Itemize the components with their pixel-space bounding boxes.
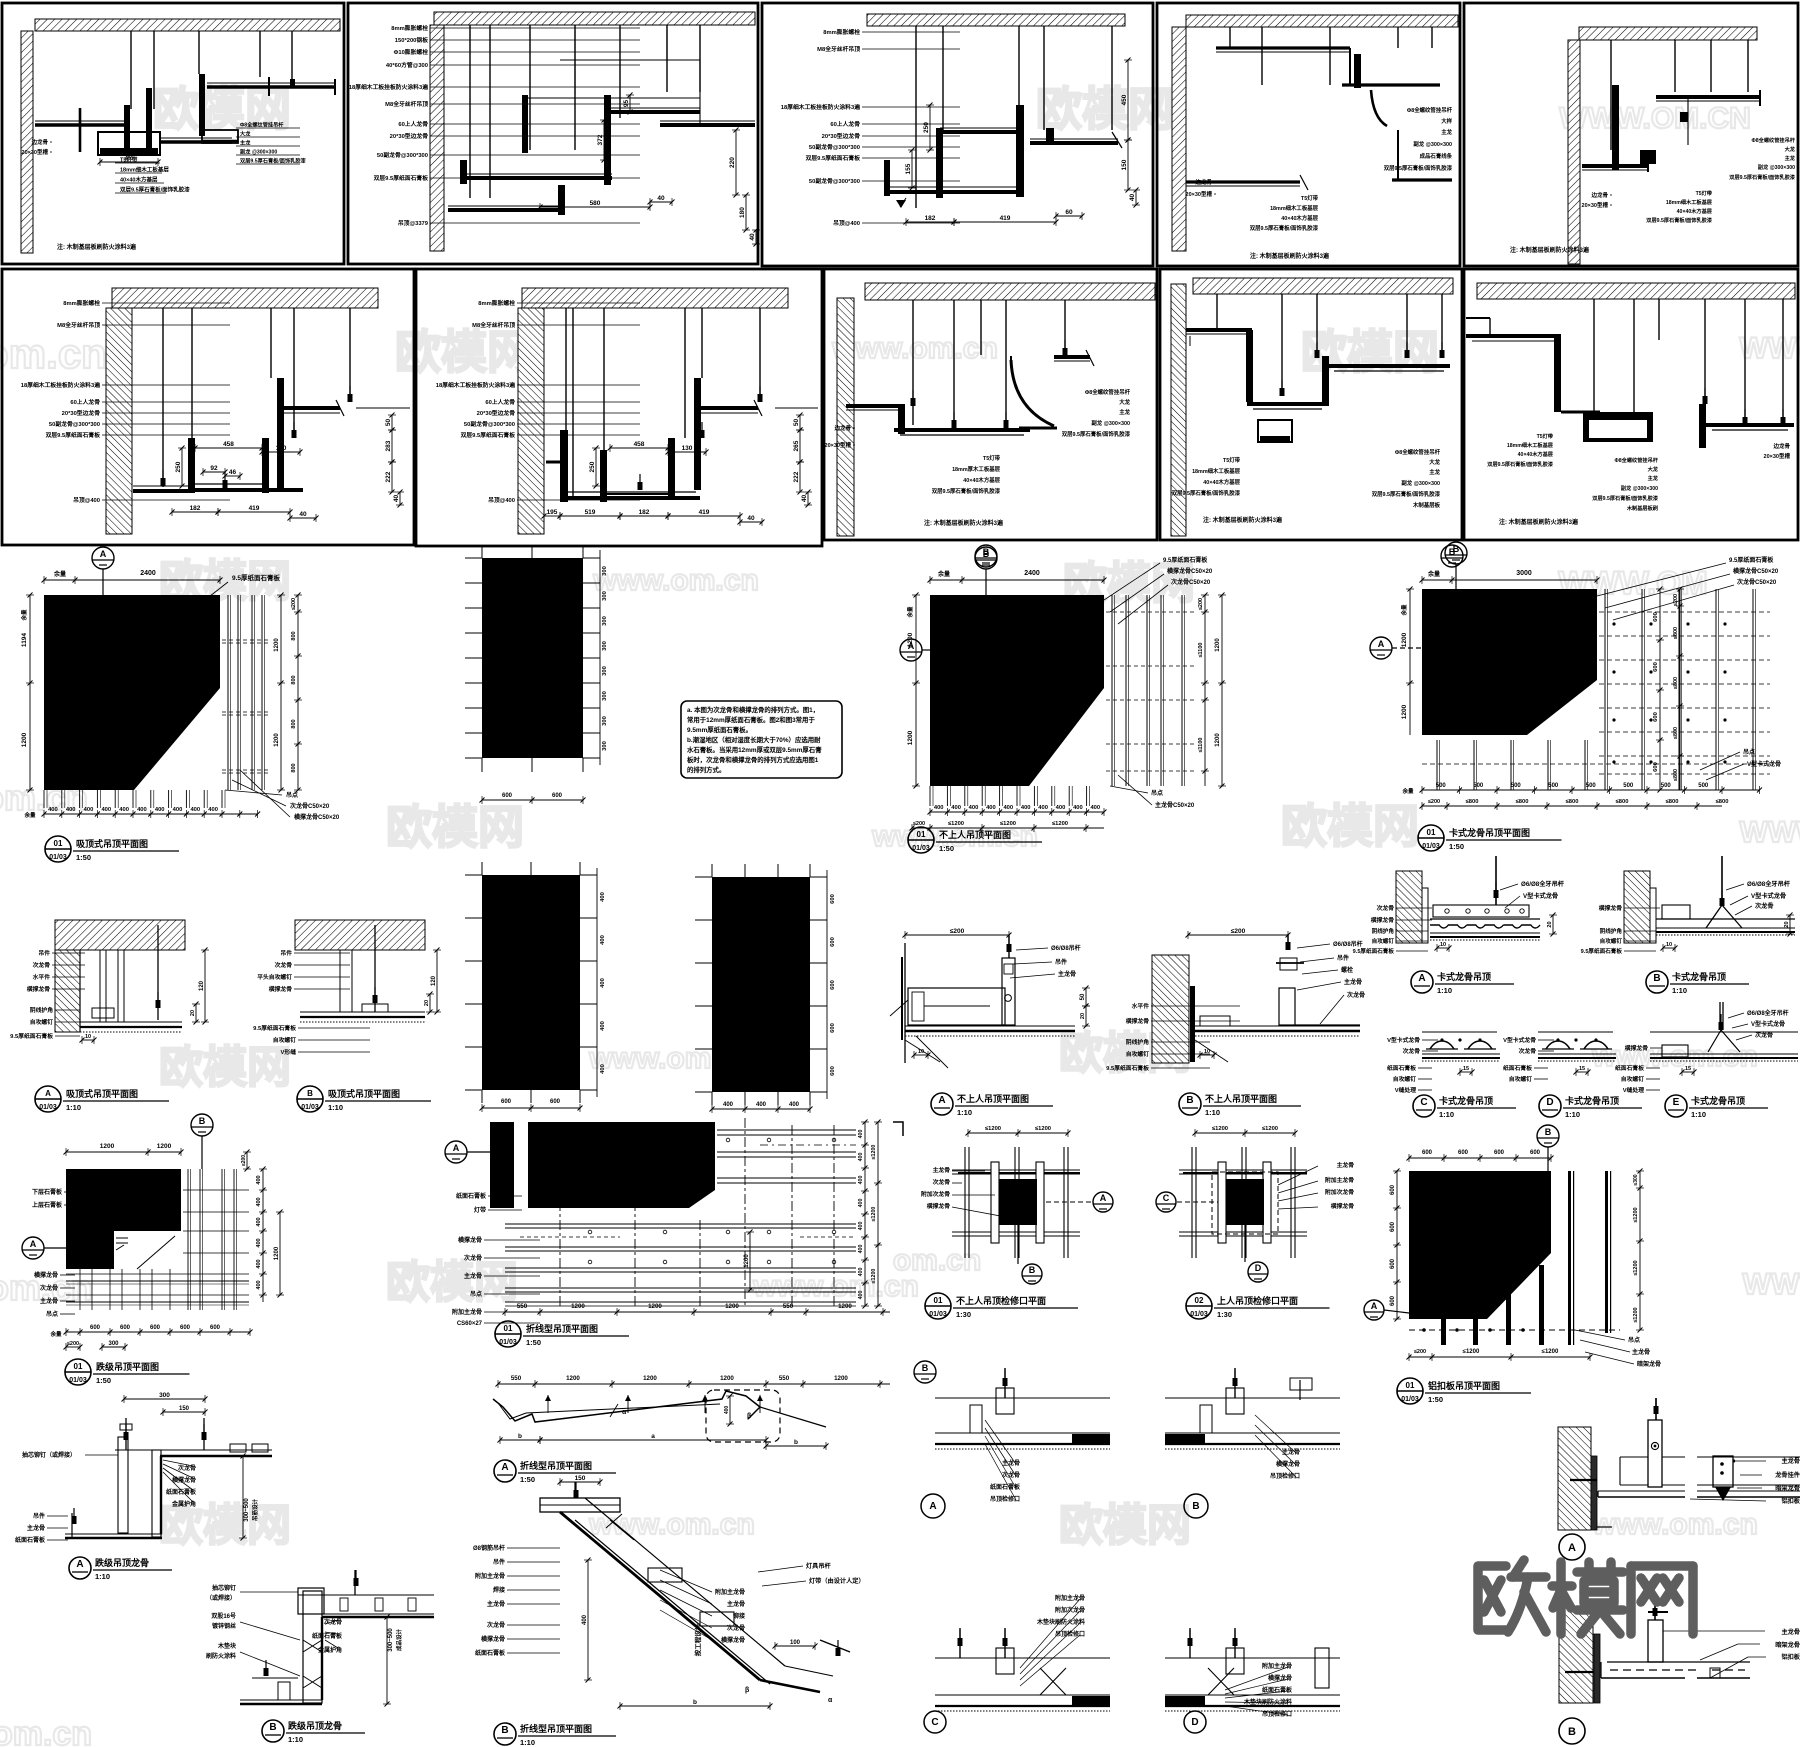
svg-text:150: 150 xyxy=(575,1475,586,1482)
stepped plan notch detail xyxy=(116,1236,175,1269)
P1 note xyxy=(57,243,137,251)
svg-text:吊件: 吊件 xyxy=(280,949,292,957)
svg-text:副龙 @300×300: 副龙 @300×300 xyxy=(240,148,277,156)
svg-text:01/03: 01/03 xyxy=(499,1339,517,1346)
svg-text:大龙: 大龙 xyxy=(240,130,251,138)
P8 labels xyxy=(825,388,1131,495)
svg-text:9.5厚纸面石膏板: 9.5厚纸面石膏板 xyxy=(1581,947,1623,955)
P2 ceiling slab hatch xyxy=(434,12,755,25)
access detail D section xyxy=(1165,1628,1340,1718)
svg-text:18厚细木工板挂板防火涂料3遍: 18厚细木工板挂板防火涂料3遍 xyxy=(781,103,860,111)
svg-text:1200: 1200 xyxy=(720,1375,734,1382)
svg-text:不上人吊顶平面图: 不上人吊顶平面图 xyxy=(957,1093,1029,1104)
svg-text:横撑龙骨: 横撑龙骨 xyxy=(1331,1202,1354,1210)
detail E title xyxy=(1665,1095,1768,1119)
svg-text:18mm细木工板基层: 18mm细木工板基层 xyxy=(1192,467,1241,475)
svg-text:500: 500 xyxy=(1511,783,1522,789)
svg-text:600: 600 xyxy=(1390,1221,1396,1232)
svg-text:60上人龙骨: 60上人龙骨 xyxy=(830,120,860,128)
svg-text:吸顶式吊顶平面图: 吸顶式吊顶平面图 xyxy=(76,838,148,849)
svg-text:暗架龙骨: 暗架龙骨 xyxy=(1637,1360,1661,1368)
svg-text:300~500: 300~500 xyxy=(244,1498,250,1522)
svg-text:纸面石膏板: 纸面石膏板 xyxy=(1503,1064,1532,1072)
detail panel P2 border xyxy=(348,3,758,264)
svg-text:300: 300 xyxy=(602,616,608,626)
aluminum panel detail A section xyxy=(1558,1398,1800,1530)
plan 03 black ceiling polygon xyxy=(930,595,1104,786)
svg-text:跌级吊顶龙骨: 跌级吊顶龙骨 xyxy=(95,1557,149,1568)
svg-text:400: 400 xyxy=(84,807,94,813)
P9 note xyxy=(1203,516,1283,524)
svg-text:纸面石膏板: 纸面石膏板 xyxy=(475,1649,506,1657)
svg-text:419: 419 xyxy=(249,505,260,512)
svg-text:b.潮湿地区（相对湿度长期大于70%）应选用耐: b.潮湿地区（相对湿度长期大于70%）应选用耐 xyxy=(687,735,821,744)
svg-text:次龙骨: 次龙骨 xyxy=(933,1178,951,1186)
svg-text:吊件: 吊件 xyxy=(1337,954,1349,962)
detail D clip-in runner section xyxy=(1503,1032,1616,1083)
svg-text:500: 500 xyxy=(1586,783,1597,789)
svg-text:18mm细木工板基层: 18mm细木工板基层 xyxy=(120,166,169,174)
svg-text:双层9.5厚石膏板/面饰乳胶漆: 双层9.5厚石膏板/面饰乳胶漆 xyxy=(1372,490,1441,498)
svg-text:2400: 2400 xyxy=(140,570,156,577)
svg-text:附加主龙骨: 附加主龙骨 xyxy=(1055,1594,1085,1602)
svg-text:B: B xyxy=(1653,973,1660,984)
svg-text:9.5厚纸面石膏板: 9.5厚纸面石膏板 xyxy=(1106,1064,1149,1072)
svg-text:1200: 1200 xyxy=(274,1246,280,1260)
svg-text:A: A xyxy=(45,1089,51,1098)
svg-text:01/03: 01/03 xyxy=(49,854,67,861)
svg-text:182: 182 xyxy=(639,509,650,516)
svg-text:01/03: 01/03 xyxy=(1190,1311,1208,1318)
svg-text:D: D xyxy=(1255,1263,1262,1273)
svg-text:a. 本图为次龙骨和横撑龙骨的排列方式。图1，: a. 本图为次龙骨和横撑龙骨的排列方式。图1， xyxy=(687,705,819,714)
svg-text:主龙骨: 主龙骨 xyxy=(1632,1348,1650,1356)
aluminum plan black polygon xyxy=(1409,1171,1551,1319)
plan drawing: clip-in runner ceiling plan 01 xyxy=(1370,542,1600,735)
svg-text:1:50: 1:50 xyxy=(526,1338,541,1347)
svg-text:≤200: ≤200 xyxy=(1428,799,1440,805)
svg-text:≤1200: ≤1200 xyxy=(1633,1307,1639,1322)
detail A leaders xyxy=(1010,944,1081,978)
plan 04 top-right leaders xyxy=(1597,556,1779,620)
svg-text:20: 20 xyxy=(1784,921,1790,927)
svg-text:附加主龙骨: 附加主龙骨 xyxy=(1262,1662,1292,1670)
svg-text:458: 458 xyxy=(634,441,645,448)
svg-text:300: 300 xyxy=(602,666,608,676)
svg-text:木垫块: 木垫块 xyxy=(217,1642,237,1650)
svg-text:01: 01 xyxy=(504,1324,513,1333)
detail E clip-in runner section xyxy=(1615,1002,1798,1094)
svg-text:横撑龙骨C50×20: 横撑龙骨C50×20 xyxy=(1733,567,1779,575)
svg-text:β: β xyxy=(745,1687,750,1694)
svg-text:20*30型边龙骨: 20*30型边龙骨 xyxy=(62,409,101,417)
P10 section ref B xyxy=(1441,545,1463,567)
svg-text:01/03: 01/03 xyxy=(69,1377,87,1384)
svg-text:om.cn: om.cn xyxy=(0,330,107,377)
svg-text:V型卡式龙骨: V型卡式龙骨 xyxy=(1387,1036,1420,1044)
svg-text:400: 400 xyxy=(723,1102,734,1108)
svg-text:铝扣板: 铝扣板 xyxy=(1781,1653,1800,1661)
svg-text:主龙骨: 主龙骨 xyxy=(1781,1628,1800,1636)
svg-text:CS60×27: CS60×27 xyxy=(457,1321,483,1327)
svg-text:400: 400 xyxy=(600,978,606,988)
svg-text:550: 550 xyxy=(783,1303,794,1310)
svg-text:222: 222 xyxy=(793,471,800,482)
svg-text:500: 500 xyxy=(1436,783,1447,789)
svg-text:大龙: 大龙 xyxy=(1119,398,1130,406)
svg-text:1200: 1200 xyxy=(907,632,914,647)
figure 2 ticks xyxy=(465,862,606,1112)
svg-text:B: B xyxy=(1186,1095,1193,1106)
svg-text:主龙骨: 主龙骨 xyxy=(933,1166,951,1174)
svg-text:9.5厚纸面石膏板: 9.5厚纸面石膏板 xyxy=(1163,556,1208,564)
svg-text:V形缝: V形缝 xyxy=(281,1048,297,1056)
svg-text:Ø8钢筋吊杆: Ø8钢筋吊杆 xyxy=(473,1544,505,1552)
svg-text:≤1200: ≤1200 xyxy=(1463,1349,1480,1355)
svg-text:95: 95 xyxy=(623,100,630,108)
svg-text:余量: 余量 xyxy=(49,1330,62,1338)
svg-text:余量: 余量 xyxy=(53,570,66,578)
svg-text:≤800: ≤800 xyxy=(1666,799,1679,805)
note text box xyxy=(681,701,842,778)
svg-text:10: 10 xyxy=(1440,942,1446,948)
svg-text:283: 283 xyxy=(385,440,392,451)
svg-text:300: 300 xyxy=(602,691,608,701)
svg-text:刷防火涂料: 刷防火涂料 xyxy=(206,1652,236,1660)
svg-text:400: 400 xyxy=(256,1197,262,1206)
svg-text:欧模网: 欧模网 xyxy=(1281,800,1419,852)
svg-text:B: B xyxy=(1545,1127,1552,1137)
svg-text:次龙骨: 次龙骨 xyxy=(464,1254,482,1262)
svg-text:b: b xyxy=(794,1439,798,1446)
svg-text:15: 15 xyxy=(1463,1066,1469,1072)
svg-text:按工程设计: 按工程设计 xyxy=(693,1623,702,1656)
svg-text:灯具吊杆: 灯具吊杆 xyxy=(806,1562,832,1570)
svg-text:01/03: 01/03 xyxy=(39,1104,57,1111)
svg-text:常用于12mm厚纸面石膏板。图2和图3常用于: 常用于12mm厚纸面石膏板。图2和图3常用于 xyxy=(687,715,815,724)
P1 ceiling slab hatch xyxy=(35,19,340,31)
svg-text:400: 400 xyxy=(969,805,979,811)
svg-text:8mm膨胀螺栓: 8mm膨胀螺栓 xyxy=(823,28,860,36)
svg-text:400: 400 xyxy=(986,805,996,811)
svg-text:≤200: ≤200 xyxy=(241,1155,247,1166)
svg-text:01/03: 01/03 xyxy=(1401,1396,1419,1403)
svg-text:暗架龙骨: 暗架龙骨 xyxy=(1775,1641,1800,1649)
svg-text:9.5厚纸面石膏板: 9.5厚纸面石膏板 xyxy=(232,573,281,582)
svg-text:卡式龙骨吊顶: 卡式龙骨吊顶 xyxy=(1672,971,1726,982)
detail A labels xyxy=(10,949,85,1040)
svg-text:自攻螺钉: 自攻螺钉 xyxy=(1509,1075,1532,1083)
svg-text:A: A xyxy=(1100,1193,1107,1203)
svg-text:V缝处理: V缝处理 xyxy=(1623,1086,1644,1094)
svg-text:双层9.5厚石膏板/面饰乳胶漆: 双层9.5厚石膏板/面饰乳胶漆 xyxy=(1250,224,1319,232)
svg-text:Ø6/Ø8全牙吊杆: Ø6/Ø8全牙吊杆 xyxy=(1747,1009,1789,1017)
svg-text:V型卡式龙骨: V型卡式龙骨 xyxy=(1751,1020,1785,1028)
detail A runner leaders xyxy=(15,1451,259,1544)
svg-text:20: 20 xyxy=(1547,921,1553,927)
P9 ceiling slab hatch xyxy=(1193,278,1453,294)
svg-text:双层9.5厚石膏板/面饰乳胶漆: 双层9.5厚石膏板/面饰乳胶漆 xyxy=(1729,173,1796,181)
detail A stepped ceiling runner xyxy=(65,1392,272,1538)
svg-text:40: 40 xyxy=(657,195,665,202)
svg-text:130: 130 xyxy=(276,445,287,452)
svg-text:≤1200: ≤1200 xyxy=(871,1207,877,1222)
svg-text:400: 400 xyxy=(858,1153,864,1162)
svg-text:1194: 1194 xyxy=(21,633,28,647)
folded plan left labels 2 xyxy=(452,1236,540,1327)
svg-text:600: 600 xyxy=(1458,1150,1469,1156)
svg-text:1:10: 1:10 xyxy=(66,1103,81,1112)
aluminum detail A title xyxy=(1559,1534,1585,1560)
svg-text:吊顶@3379: 吊顶@3379 xyxy=(398,219,429,227)
svg-text:800: 800 xyxy=(291,675,297,684)
svg-text:双层9.5厚石膏板/面饰乳胶漆: 双层9.5厚石膏板/面饰乳胶漆 xyxy=(120,186,190,194)
svg-text:吸顶式吊顶平面图: 吸顶式吊顶平面图 xyxy=(328,1088,400,1099)
svg-text:A: A xyxy=(1418,973,1425,984)
svg-text:V型卡式龙骨: V型卡式龙骨 xyxy=(1751,892,1786,900)
svg-text:主龙骨: 主龙骨 xyxy=(1337,1161,1355,1169)
svg-text:600: 600 xyxy=(210,1325,221,1331)
svg-text:≤200: ≤200 xyxy=(913,821,925,827)
svg-text:400: 400 xyxy=(1090,805,1100,811)
svg-text:阴线护角: 阴线护角 xyxy=(1126,1038,1149,1046)
svg-text:1:30: 1:30 xyxy=(1217,1310,1232,1319)
svg-text:V型卡式龙骨: V型卡式龙骨 xyxy=(1523,892,1558,900)
svg-text:双层9.5厚石膏板/面饰乳胶漆: 双层9.5厚石膏板/面饰乳胶漆 xyxy=(1592,494,1659,502)
P1 bottom leader labels xyxy=(115,156,190,194)
svg-text:40: 40 xyxy=(747,515,755,522)
svg-text:吊点: 吊点 xyxy=(46,1310,58,1318)
svg-text:WWW: WWW xyxy=(1743,1268,1800,1301)
svg-text:≤800: ≤800 xyxy=(1516,799,1529,805)
svg-text:平头自攻螺钉: 平头自攻螺钉 xyxy=(257,973,292,981)
svg-text:300: 300 xyxy=(602,641,608,651)
svg-text:40×40木方基层: 40×40木方基层 xyxy=(1518,450,1553,458)
svg-text:1:50: 1:50 xyxy=(939,844,954,853)
stepped plan title xyxy=(65,1359,190,1385)
svg-text:余量: 余量 xyxy=(23,811,36,819)
svg-text:02: 02 xyxy=(1195,1296,1204,1305)
svg-text:01: 01 xyxy=(1406,1381,1415,1390)
svg-text:400: 400 xyxy=(600,1021,606,1031)
svg-text:次龙骨: 次龙骨 xyxy=(324,1618,342,1626)
stepped plan black polygon xyxy=(66,1169,181,1269)
P6 wall hatch xyxy=(106,308,132,534)
svg-text:01/03: 01/03 xyxy=(1422,843,1440,850)
plan drawing: suspended ceiling plan 01 xyxy=(20,569,223,793)
svg-text:铝扣板吊顶平面图: 铝扣板吊顶平面图 xyxy=(1428,1380,1500,1391)
svg-text:注: 木制基层板刷防火涂料3遍: 注: 木制基层板刷防火涂料3遍 xyxy=(57,243,137,251)
svg-text:≤1200: ≤1200 xyxy=(1262,1126,1278,1132)
svg-text:抽芯铆钉: 抽芯铆钉 xyxy=(212,1584,236,1592)
folded plan grid xyxy=(505,1118,856,1308)
svg-text:T5灯带: T5灯带 xyxy=(1223,456,1241,464)
svg-text:自攻螺钉: 自攻螺钉 xyxy=(273,1036,296,1044)
svg-text:400: 400 xyxy=(119,807,129,813)
svg-text:阴线护角: 阴线护角 xyxy=(30,1006,53,1014)
svg-text:1200: 1200 xyxy=(648,1303,662,1310)
detail B leaders xyxy=(1106,940,1365,1072)
svg-text:400: 400 xyxy=(934,805,944,811)
svg-text:自攻螺钉: 自攻螺钉 xyxy=(1372,937,1395,945)
svg-text:1:10: 1:10 xyxy=(520,1738,535,1747)
detail A clip-in leaders xyxy=(1353,880,1565,955)
P6 dims xyxy=(170,413,405,523)
svg-text:01: 01 xyxy=(1427,828,1436,837)
svg-text:20*30型边龙骨: 20*30型边龙骨 xyxy=(390,132,429,140)
plan 03 bottom dims xyxy=(910,775,1195,832)
detail B folded-line 1:10 xyxy=(540,1475,850,1710)
svg-text:C: C xyxy=(1420,1097,1427,1108)
svg-text:18厚细木工板挂板防火涂料3遍: 18厚细木工板挂板防火涂料3遍 xyxy=(349,83,428,91)
svg-text:600: 600 xyxy=(1530,1150,1541,1156)
svg-text:M8全牙丝杆吊顶: M8全牙丝杆吊顶 xyxy=(472,321,515,329)
svg-text:600: 600 xyxy=(1653,762,1659,772)
svg-text:纸面石膏板: 纸面石膏板 xyxy=(456,1192,487,1200)
svg-text:10: 10 xyxy=(85,1034,91,1040)
P5 wall hatch xyxy=(1568,40,1580,264)
svg-text:≤1200: ≤1200 xyxy=(1000,821,1016,827)
svg-text:主龙骨: 主龙骨 xyxy=(1344,978,1362,986)
svg-text:46: 46 xyxy=(229,469,237,476)
svg-text:欧模网: 欧模网 xyxy=(386,801,524,853)
access detail B title xyxy=(1184,1494,1208,1518)
svg-text:主龙骨: 主龙骨 xyxy=(40,1297,58,1305)
svg-text:A: A xyxy=(100,549,107,559)
svg-text:B: B xyxy=(1453,544,1460,554)
svg-text:≤200: ≤200 xyxy=(1198,598,1204,610)
P8 ceiling slab hatch xyxy=(865,283,1155,300)
svg-text:自攻螺钉: 自攻螺钉 xyxy=(1600,937,1623,945)
svg-text:50副龙骨@300*300: 50副龙骨@300*300 xyxy=(464,420,515,428)
svg-text:双层9.5厚石膏板/面饰乳胶漆: 双层9.5厚石膏板/面饰乳胶漆 xyxy=(1646,216,1713,224)
svg-text:金属护角: 金属护角 xyxy=(317,1646,342,1654)
svg-text:20×30型槽: 20×30型槽 xyxy=(1582,201,1609,209)
svg-text:60上人龙骨: 60上人龙骨 xyxy=(70,398,100,406)
svg-text:次龙骨: 次龙骨 xyxy=(1347,991,1365,999)
svg-text:纸面石膏板: 纸面石膏板 xyxy=(1615,1064,1644,1072)
svg-text:≤800: ≤800 xyxy=(1673,727,1679,739)
svg-text:WWW: WWW xyxy=(1740,816,1800,849)
P2 left labels xyxy=(349,24,640,227)
svg-text:附加次龙骨: 附加次龙骨 xyxy=(921,1190,950,1198)
svg-text:D: D xyxy=(1546,1097,1553,1108)
P6 hangers xyxy=(163,308,350,487)
svg-text:Ø6/Ø8吊杆: Ø6/Ø8吊杆 xyxy=(1051,944,1081,952)
svg-text:250: 250 xyxy=(175,461,182,472)
plan 01 grid right of polygon xyxy=(222,595,268,790)
svg-text:≤800: ≤800 xyxy=(1716,799,1729,805)
plan drawing: board layout figure 1 black rectangle xyxy=(482,558,583,758)
svg-text:M8全牙丝杆吊顶: M8全牙丝杆吊顶 xyxy=(817,45,860,53)
svg-text:大龙: 大龙 xyxy=(1785,145,1796,153)
plan drawing: folded-line ceiling plan 01 xyxy=(445,1141,490,1163)
svg-text:600: 600 xyxy=(1390,1184,1396,1195)
detail A ceiling-mounted section xyxy=(55,920,209,1044)
aluminum detail A leaders xyxy=(1690,1457,1800,1505)
svg-text:400: 400 xyxy=(858,1176,864,1185)
svg-text:双层9.5厚石膏板/面饰乳胶漆: 双层9.5厚石膏板/面饰乳胶漆 xyxy=(240,157,307,165)
svg-text:自攻螺钉: 自攻螺钉 xyxy=(30,1018,53,1026)
detail B folded title xyxy=(494,1723,616,1747)
svg-text:600: 600 xyxy=(1653,612,1659,622)
svg-text:铆接: 铆接 xyxy=(733,1612,745,1620)
svg-text:次龙骨: 次龙骨 xyxy=(40,1284,58,1292)
svg-text:om.cn: om.cn xyxy=(893,1244,981,1277)
detail B ceiling-mounted section xyxy=(295,920,441,1022)
svg-text:吊点: 吊点 xyxy=(286,791,298,799)
svg-text:40: 40 xyxy=(299,511,307,518)
svg-text:余量: 余量 xyxy=(1400,604,1408,617)
svg-text:次龙骨: 次龙骨 xyxy=(275,961,293,969)
svg-text:1:10: 1:10 xyxy=(1565,1110,1580,1119)
detail B folded leaders right xyxy=(660,1562,865,1644)
svg-text:1:50: 1:50 xyxy=(520,1475,535,1484)
svg-text:www.om.cn: www.om.cn xyxy=(1591,1508,1758,1541)
svg-text:A: A xyxy=(929,1501,936,1512)
svg-text:92: 92 xyxy=(210,465,218,472)
svg-text:400: 400 xyxy=(256,1259,262,1268)
svg-text:≤800: ≤800 xyxy=(1616,799,1629,805)
svg-text:Φ10膨胀螺栓: Φ10膨胀螺栓 xyxy=(394,48,429,56)
svg-text:α: α xyxy=(828,1697,833,1704)
P3 stepped profile xyxy=(884,105,1122,208)
P2 hangers xyxy=(470,25,700,198)
plan: access panel non-accessible 01 xyxy=(921,1126,1113,1284)
svg-text:1:50: 1:50 xyxy=(1449,842,1464,851)
svg-text:纸面石膏板: 纸面石膏板 xyxy=(990,1483,1021,1491)
svg-text:400: 400 xyxy=(48,807,58,813)
P10 ceiling slab hatch xyxy=(1477,283,1795,299)
svg-text:纸面石膏板: 纸面石膏板 xyxy=(15,1536,46,1544)
svg-text:吊顶@400: 吊顶@400 xyxy=(488,496,515,504)
svg-text:注: 木制基层板刷防火涂料3遍: 注: 木制基层板刷防火涂料3遍 xyxy=(1203,516,1283,524)
svg-text:600: 600 xyxy=(1422,1150,1433,1156)
svg-text:18mm厚木工板基层: 18mm厚木工板基层 xyxy=(952,465,1001,473)
svg-text:跌级吊顶龙骨: 跌级吊顶龙骨 xyxy=(288,1720,342,1731)
svg-text:300: 300 xyxy=(602,741,608,751)
svg-text:400: 400 xyxy=(256,1217,262,1226)
board layout figure 3 black rectangle xyxy=(712,877,810,1092)
svg-text:18mm细木工板基层: 18mm细木工板基层 xyxy=(1270,204,1319,212)
svg-text:B: B xyxy=(199,1116,206,1126)
svg-text:8mm膨胀螺栓: 8mm膨胀螺栓 xyxy=(391,24,428,32)
svg-text:次龙骨C50×20: 次龙骨C50×20 xyxy=(1171,578,1211,586)
svg-text:1:50: 1:50 xyxy=(76,853,91,862)
svg-text:1:10: 1:10 xyxy=(328,1103,343,1112)
plan 01 suspension point leaders xyxy=(225,770,340,821)
detail panel P4 border xyxy=(1157,3,1460,266)
P10 note xyxy=(1499,518,1579,526)
svg-text:横撑龙骨: 横撑龙骨 xyxy=(34,1271,58,1279)
svg-text:130: 130 xyxy=(682,445,693,452)
svg-text:20×30型槽: 20×30型槽 xyxy=(22,148,49,156)
svg-text:余量: 余量 xyxy=(937,570,950,578)
figure 3 ticks xyxy=(695,864,836,1113)
plan 04 right dim columns xyxy=(1653,587,1684,793)
svg-text:横撑龙骨C50×20: 横撑龙骨C50×20 xyxy=(1167,567,1213,575)
svg-text:附加主龙骨: 附加主龙骨 xyxy=(1325,1176,1354,1184)
svg-text:600: 600 xyxy=(1390,1258,1396,1269)
svg-text:WWW.OM.CN: WWW.OM.CN xyxy=(1559,102,1751,135)
svg-text:≤1200: ≤1200 xyxy=(985,1126,1001,1132)
svg-text:400: 400 xyxy=(951,805,961,811)
svg-text:www.om.cn: www.om.cn xyxy=(831,332,998,365)
svg-text:400: 400 xyxy=(789,1102,800,1108)
svg-text:卡式龙骨吊顶: 卡式龙骨吊顶 xyxy=(1565,1095,1619,1106)
svg-text:C: C xyxy=(931,1717,938,1728)
svg-text:182: 182 xyxy=(190,505,201,512)
